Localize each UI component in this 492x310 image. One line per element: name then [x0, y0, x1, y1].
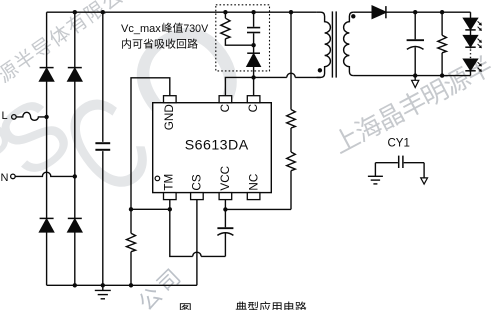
node: startup chain top junction — [289, 10, 293, 14]
wire: LED string drop — [470, 12, 472, 18]
capacitor CY1 (Y-cap) — [375, 156, 424, 168]
node: snubber top junctions — [223, 10, 227, 14]
wire — [470, 30, 472, 36]
wire: drain to pin C1 — [225, 77, 253, 95]
node: VCC junction — [223, 207, 227, 211]
transformer core — [332, 11, 336, 77]
wire: drain to pin C2 / snubber diode — [253, 66, 255, 96]
diode D1 (bridge, top-left) — [40, 68, 54, 82]
resistor R4 (output dummy load) — [438, 12, 447, 75]
resistor R1 (snubber) — [221, 12, 254, 45]
pin NC (bottom) — [247, 193, 260, 200]
LED1 — [464, 18, 482, 31]
watermark text: company name diagonal right — [330, 53, 492, 155]
resistor R3 (startup, lower) — [287, 128, 296, 209]
watermark giant letter O — [97, 0, 276, 174]
svg-text:CY1: CY1 — [388, 137, 410, 149]
terminal N — [11, 172, 75, 179]
capacitor C3 (input filter) branch — [95, 12, 110, 285]
caption (bottom, clipped) — [180, 303, 191, 310]
wire: bottom DC- rail — [47, 284, 197, 286]
pin GND (top) — [164, 96, 177, 103]
diode D2 (bridge, top-right) — [68, 68, 82, 82]
watermark giant letter S — [0, 76, 91, 199]
watermark text: company name diagonal top-left — [0, 0, 124, 84]
watermark giant letter P — [0, 105, 36, 196]
svg-text:Vc_max: Vc_max — [121, 23, 161, 35]
pin TM (bottom) — [164, 193, 177, 200]
diode D3 (bridge, bottom-left) — [40, 218, 54, 232]
wire: AC bus top rail — [47, 11, 317, 13]
resistor R5 (GND sense, left of IC) — [127, 209, 136, 285]
pin C2 (top) — [247, 96, 260, 103]
op IC U1 S6613DA body — [153, 103, 272, 193]
wire: VCC row to startup chain — [225, 208, 291, 210]
diode D5 (snubber clamp) — [247, 53, 260, 66]
watermark text: company name fragment bottom-center — [136, 267, 182, 310]
svg-text:L: L — [2, 110, 8, 122]
svg-text:C: C — [247, 104, 260, 112]
wire: secondary top rail — [353, 11, 470, 13]
node: L to branch1 junction — [44, 115, 48, 119]
LED3 — [464, 59, 482, 72]
wire: bridge branch 1 vertical (L leg) — [46, 12, 48, 285]
resistor R2 (startup, upper) — [287, 12, 296, 128]
node: snubber RC junction — [251, 43, 255, 47]
svg-text:730V: 730V — [183, 23, 209, 35]
secondary return arrow (CY1 right) — [421, 163, 428, 184]
pin CS (bottom) — [191, 193, 204, 200]
pin-1 marker circle — [155, 176, 160, 181]
node: top bus junctions — [73, 10, 77, 14]
transformer T1 secondary winding — [344, 12, 354, 75]
wire: TM pin down and across to VCC cap bottom (hops CS) — [170, 200, 193, 257]
diode D6 (output rectifier) — [372, 6, 386, 18]
node: drain junction — [251, 75, 255, 79]
wire: CS pin down to DC- rail — [196, 200, 198, 286]
svg-text:S6613DA: S6613DA — [185, 138, 249, 154]
LED2 — [464, 36, 482, 49]
wire: GND pin loop — [131, 78, 170, 210]
svg-text:N: N — [1, 172, 9, 184]
capacitor C1 (snubber) — [247, 12, 260, 53]
node: GND row left junction — [129, 207, 133, 211]
diode D4 (bridge, bottom-right) — [68, 218, 82, 232]
svg-text:NC: NC — [248, 174, 261, 191]
svg-text:GND: GND — [163, 104, 176, 130]
terminal L with fuse F1 — [12, 112, 47, 120]
wire: dotted continuation — [470, 47, 472, 48]
watermark giant letter C — [37, 65, 177, 225]
wire: drain node rail (hops startup chain) — [254, 76, 287, 78]
transformer T1 primary winding — [317, 12, 331, 77]
annotation line 2 — [122, 39, 131, 49]
output return arrow symbol — [412, 76, 419, 88]
svg-text:TM: TM — [163, 174, 176, 191]
capacitor C5 (output, electrolytic) — [407, 12, 424, 75]
pin VCC (bottom) — [219, 193, 232, 200]
wire — [470, 71, 472, 76]
transformer primary phase dot — [318, 68, 322, 72]
capacitor C4 (VCC, electrolytic) — [217, 200, 233, 257]
svg-text:CS: CS — [190, 174, 203, 190]
transformer secondary phase dot — [351, 14, 355, 18]
snubber dashed box — [216, 5, 270, 71]
ground (primary-side) — [95, 285, 111, 299]
svg-text:VCC: VCC — [219, 166, 232, 191]
earth ground (CY1 left) — [368, 163, 383, 184]
node: TM junction — [168, 207, 172, 211]
pin C1 (top) — [219, 96, 232, 103]
svg-text:C: C — [219, 104, 232, 112]
wire: secondary bottom rail — [353, 75, 470, 77]
wire: bridge branch 2 vertical (N leg) — [74, 12, 76, 285]
node: N to branch2 junction — [73, 174, 77, 178]
